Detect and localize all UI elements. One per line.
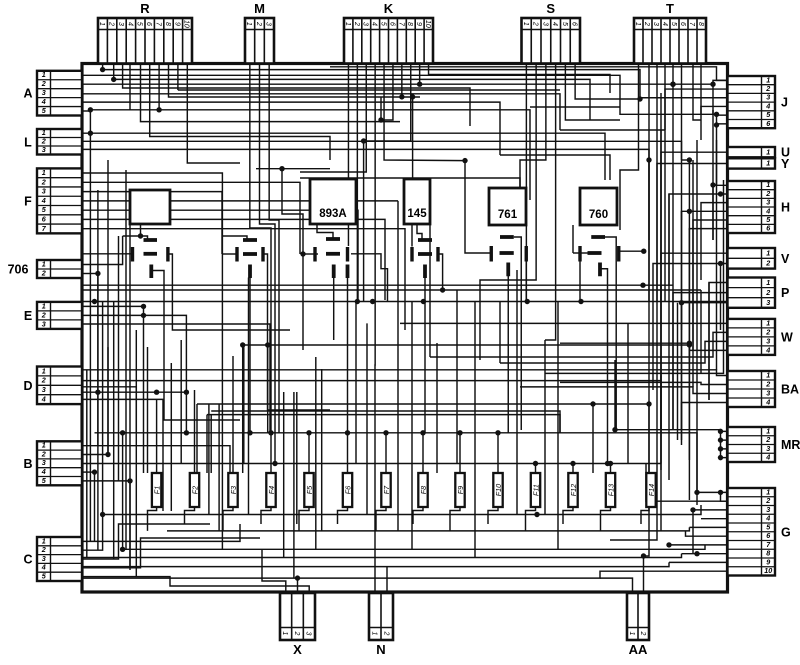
svg-text:F5: F5 (305, 485, 314, 494)
junction (295, 575, 300, 580)
svg-text:3: 3 (42, 385, 46, 394)
wire G3 net (693, 510, 728, 554)
wire K9 drop (419, 64, 421, 85)
wire relay3 right (351, 254, 388, 302)
wire G1 net (697, 491, 728, 493)
wire mid trunk 8 (293, 392, 295, 578)
svg-text:M: M (254, 1, 265, 16)
relay box (unlabeled) (130, 190, 170, 224)
junction (640, 283, 645, 288)
wire P2 net (673, 293, 728, 430)
fuse F6 (343, 473, 353, 507)
wire T3 drop (610, 64, 657, 541)
junction (378, 117, 383, 122)
fuse F14 (646, 473, 656, 507)
junction (710, 82, 715, 87)
wire fuse F9 riser (459, 433, 461, 473)
svg-text:3: 3 (42, 88, 46, 97)
wire relay5 right drop (525, 262, 527, 302)
svg-text:1: 1 (766, 278, 770, 287)
relay box 760 (580, 188, 617, 225)
connector M (3 pins) (245, 1, 274, 64)
wire net 387 (520, 387, 728, 394)
svg-text:760: 760 (589, 209, 608, 221)
wire C5 net (82, 577, 262, 586)
svg-text:F11: F11 (531, 484, 540, 496)
svg-text:F13: F13 (606, 484, 615, 496)
wire MR feed2 (614, 360, 616, 430)
wire MR1 net (721, 430, 728, 432)
wire left trunk c (102, 302, 104, 515)
wire N1 riser (374, 558, 376, 594)
wire J6 trunk (713, 125, 717, 185)
wire K2 drop (356, 64, 358, 301)
svg-text:6: 6 (679, 22, 686, 26)
junction (694, 490, 699, 495)
svg-text:8: 8 (164, 22, 171, 26)
wire S6 drop (575, 64, 640, 100)
connector L (3 pins) (24, 128, 82, 154)
wire mid trunk 6 (248, 278, 250, 515)
wire fuse top bus (95, 433, 698, 493)
junction (666, 542, 671, 547)
wire right trunk 7 (681, 211, 683, 430)
wire left trunk b (97, 190, 99, 550)
wire fuse F11 bottom hook (526, 507, 536, 531)
junction (272, 461, 277, 466)
relay contacts K2 (237, 240, 263, 278)
junction (694, 551, 699, 556)
wire B5 net (82, 480, 130, 482)
wire B2 branch (107, 347, 109, 454)
junction (457, 430, 462, 435)
wire MR2 net (721, 439, 728, 441)
wire fuse F10 riser (497, 433, 499, 473)
wire net 325 (400, 322, 728, 324)
wire R8 drop (169, 64, 421, 98)
junction (92, 469, 97, 474)
junction (612, 427, 617, 432)
wire J5 trunk (716, 114, 718, 125)
connector BA (4 pins) (728, 370, 800, 407)
wire fuse F14 riser (648, 440, 650, 473)
svg-text:1: 1 (42, 70, 46, 79)
junction (138, 233, 143, 238)
svg-text:3: 3 (766, 93, 770, 102)
wire T4 drop (664, 64, 666, 302)
svg-text:V: V (781, 252, 790, 266)
wire net 120 (380, 97, 382, 120)
wire U net (661, 152, 728, 260)
wire R1 bus (103, 70, 640, 99)
wire net 160b (648, 160, 650, 302)
wire C3 net (82, 524, 210, 559)
wire H6 net (689, 229, 727, 360)
wire V2 trunk (720, 264, 722, 331)
connector C (5 pins) (23, 536, 82, 581)
junction (105, 452, 110, 457)
wire relay2 left feed (222, 253, 236, 255)
wire mid trunk 13 (366, 323, 368, 514)
svg-text:8: 8 (697, 22, 704, 26)
wire X3 riser (262, 586, 309, 593)
svg-text:2: 2 (382, 630, 389, 635)
wire right trunk 3 (668, 194, 670, 480)
wire mid trunk 3 (218, 404, 220, 531)
wire mid trunk 2 (210, 415, 212, 473)
svg-text:3: 3 (766, 444, 770, 453)
svg-text:H: H (781, 201, 790, 215)
junction (687, 157, 692, 162)
wire relay6 top feed (605, 237, 616, 430)
wire MR trunk (720, 431, 722, 457)
wire relay6 left feed drop (572, 225, 574, 253)
svg-text:2: 2 (41, 545, 46, 554)
junction (345, 430, 350, 435)
junction (590, 401, 595, 406)
wire relay5 top feed (514, 237, 522, 430)
wire E1 trunk (143, 306, 145, 473)
svg-text:3: 3 (362, 22, 369, 26)
wire T8 drop (700, 64, 702, 115)
svg-text:1: 1 (344, 22, 351, 26)
wire relay6 left bar drop (579, 262, 581, 302)
wire left trunk e (113, 302, 115, 560)
junction (533, 461, 538, 466)
connector G (10 pins) (728, 487, 791, 575)
svg-text:4: 4 (765, 514, 770, 523)
junction (462, 158, 467, 163)
junction (641, 553, 646, 558)
wire J2 net (665, 89, 728, 130)
wire J5 net (717, 114, 728, 116)
wire S1 drop (525, 64, 527, 302)
connector D (4 pins) (23, 366, 82, 404)
wire low bus 5 (82, 562, 669, 566)
wire mid trunk 14 (397, 201, 399, 531)
wire B2 net (82, 454, 108, 456)
junction (88, 131, 93, 136)
wire relay1 coil drop (151, 271, 240, 421)
svg-text:1: 1 (42, 168, 46, 177)
wire D1 net (82, 370, 728, 376)
svg-text:4: 4 (765, 101, 770, 110)
wire S2 drop (480, 64, 536, 361)
wire A3 net (82, 94, 560, 130)
wire R1 drop (102, 64, 104, 70)
wire D4 net (82, 399, 163, 511)
wire fuse F5 riser (308, 433, 310, 473)
junction (578, 299, 583, 304)
connector U (1 pin) (728, 146, 791, 160)
svg-text:F2: F2 (190, 486, 199, 494)
svg-text:1: 1 (766, 159, 770, 168)
wire S3 drop (520, 64, 546, 201)
wire right trunk 2 (660, 130, 662, 470)
svg-text:6: 6 (388, 22, 395, 26)
wire G9 net (669, 561, 728, 563)
svg-text:3: 3 (42, 458, 46, 467)
svg-text:G: G (781, 525, 791, 539)
connector F (7 pins) (24, 168, 82, 233)
wire fuse F12 riser (572, 464, 574, 474)
wire left trunk d (107, 160, 109, 455)
svg-text:4: 4 (41, 196, 46, 205)
fuse F1 (152, 473, 162, 507)
wire relay3 left drop (302, 254, 304, 350)
junction (247, 430, 252, 435)
wire J6 net (717, 123, 728, 125)
relay box 893A (310, 179, 356, 224)
wire right trunk 5 (672, 84, 674, 430)
svg-text:9: 9 (173, 22, 180, 26)
wire P1 net (709, 283, 728, 401)
junction (306, 430, 311, 435)
wire fuse F8 bottom hook (413, 507, 423, 524)
junction (670, 82, 675, 87)
junction (355, 299, 360, 304)
wire fuse F13 bottom hook (601, 507, 611, 531)
svg-text:4: 4 (765, 397, 770, 406)
wire relay4 right (439, 254, 443, 290)
svg-text:1: 1 (766, 75, 770, 84)
wire Y net (657, 164, 728, 302)
svg-text:1: 1 (281, 631, 288, 635)
relay contacts K5 (491, 237, 526, 276)
svg-text:C: C (23, 553, 32, 567)
wire R6 drop (150, 64, 330, 161)
svg-text:2: 2 (108, 21, 115, 26)
junction (495, 430, 500, 435)
junction (100, 67, 105, 72)
wire relay3 top feed (317, 224, 333, 239)
junction (570, 461, 575, 466)
junction (417, 82, 422, 87)
wire low bus 2 (167, 527, 689, 531)
connector S (6 pins) (522, 1, 581, 64)
svg-text:5: 5 (136, 22, 143, 26)
wire fuse F3 bottom hook (223, 507, 233, 531)
svg-text:3: 3 (42, 554, 46, 563)
svg-text:1: 1 (42, 259, 46, 268)
connector A (5 pins) (23, 70, 82, 115)
wire L3 net (82, 149, 649, 240)
svg-text:3: 3 (766, 336, 770, 345)
svg-text:F: F (24, 194, 32, 208)
wire C2 net (82, 515, 103, 551)
svg-text:3: 3 (766, 298, 770, 307)
wire R2 bus (114, 79, 590, 120)
wire MR feed (615, 430, 721, 432)
wire net T6 (682, 159, 690, 161)
wire fuse F13 riser (610, 464, 612, 474)
wire net 404 (197, 403, 649, 405)
connector AA (2 pins) (627, 593, 649, 657)
wire R2 drop (113, 64, 115, 80)
wire mid trunk 11 (321, 369, 323, 531)
wire A1 net (82, 75, 717, 114)
wire 706-2 net (82, 273, 98, 275)
svg-text:6: 6 (571, 22, 578, 26)
svg-text:MR: MR (781, 438, 800, 452)
svg-text:10: 10 (424, 20, 431, 28)
wire net 160 (465, 161, 491, 253)
svg-text:2: 2 (765, 288, 770, 297)
wire left trunk g (125, 170, 127, 549)
relay contacts K3 (315, 239, 348, 278)
wire mid trunk 19 (544, 340, 546, 515)
wire G5 net (689, 526, 727, 528)
wire net 141 (363, 141, 365, 302)
wire relay4 left feed (411, 224, 413, 247)
junction (156, 107, 161, 112)
wire F1 net (82, 173, 222, 236)
svg-text:2: 2 (353, 21, 360, 26)
connector T (8 pins) (634, 1, 706, 64)
wire K3 drop (300, 64, 366, 173)
wire F14 riser top (648, 404, 650, 440)
relay box 761 (489, 188, 526, 225)
wire G7 net (669, 544, 728, 546)
svg-text:4: 4 (41, 97, 46, 106)
svg-text:9: 9 (415, 22, 422, 26)
wire net 357 drop (429, 224, 431, 357)
wire K1 drop (347, 64, 349, 247)
wire A4 net (82, 102, 500, 155)
fuse F2 (190, 473, 200, 507)
wire T5 drop (672, 64, 674, 85)
wire mid trunk 18 (474, 302, 476, 558)
junction (127, 478, 132, 483)
wire right trunk 6 (677, 303, 679, 440)
connector J (6 pins) (728, 75, 789, 128)
wire net 382 (560, 382, 728, 384)
wire fuse F1 bottom hook (148, 507, 157, 531)
connector N (2 pins) (369, 593, 393, 657)
wire S5 drop (565, 64, 620, 121)
svg-text:4: 4 (371, 22, 378, 26)
wire K8 drop (364, 64, 411, 142)
wire R5 drop (141, 64, 401, 122)
wire net 91 (178, 89, 560, 91)
svg-text:3: 3 (541, 22, 548, 26)
wire low bus 6 (82, 571, 693, 578)
wire net 155 (500, 155, 610, 180)
wire F3 riser top (232, 356, 234, 370)
svg-text:2: 2 (532, 21, 539, 26)
wire R10 drop (187, 64, 240, 164)
junction (95, 271, 100, 276)
junction (279, 166, 284, 171)
connector W (4 pins) (728, 318, 794, 355)
junction (141, 304, 146, 309)
svg-text:2: 2 (41, 310, 46, 319)
svg-text:893A: 893A (319, 208, 347, 220)
svg-text:BA: BA (781, 383, 799, 397)
wire fuse F12 bottom hook (563, 507, 573, 524)
fuse F9 (455, 473, 465, 507)
fuse F4 (266, 473, 276, 507)
wire fuse F3 riser (232, 370, 234, 473)
svg-text:S: S (546, 1, 555, 16)
svg-text:AA: AA (629, 642, 648, 657)
wire net 290 (82, 289, 701, 291)
junction (120, 547, 125, 552)
svg-text:4: 4 (41, 467, 46, 476)
svg-text:8: 8 (766, 549, 770, 558)
wire F4 net (82, 200, 398, 202)
junction (718, 437, 723, 442)
svg-text:761: 761 (498, 209, 518, 221)
svg-text:9: 9 (766, 557, 770, 566)
junction (111, 77, 116, 82)
junction (714, 112, 719, 117)
wire relay3 lower2 drop (347, 278, 349, 433)
wire net 373 (545, 326, 724, 373)
wire net 178 (300, 178, 520, 200)
wire net 345 drop a (242, 345, 244, 473)
wire G1-G2 link (721, 492, 728, 501)
wire low bus 3 (123, 545, 705, 549)
svg-text:F8: F8 (419, 486, 428, 494)
junction (120, 430, 125, 435)
wire fuse F7 riser (385, 433, 387, 473)
svg-text:1: 1 (634, 22, 641, 26)
svg-text:4: 4 (41, 394, 46, 403)
fuse F5 (304, 473, 314, 507)
svg-text:6: 6 (145, 22, 152, 26)
svg-text:F4: F4 (267, 486, 276, 494)
wire mid trunk 10 (315, 357, 317, 549)
wire G6 net (686, 531, 728, 536)
svg-text:10: 10 (183, 20, 190, 28)
junction (361, 138, 366, 143)
wire fuse F11 riser (535, 464, 537, 474)
wire mid trunk 20 (557, 302, 559, 550)
junction (714, 122, 719, 127)
wire right trunk 11 (700, 290, 702, 373)
wire net 343 (560, 343, 689, 460)
wire net 107 (530, 106, 620, 108)
wire 706-1 net (82, 236, 123, 265)
junction (370, 299, 375, 304)
svg-text:2: 2 (765, 259, 770, 268)
wire left trunk h (129, 190, 131, 568)
wire fuse F2 riser (194, 390, 196, 473)
junction (718, 446, 723, 451)
wire A5 net b (90, 110, 530, 200)
wire R9 drop (177, 64, 179, 91)
svg-text:X: X (293, 642, 302, 657)
svg-text:2: 2 (41, 268, 46, 277)
wire relay3 coil drop (333, 278, 335, 341)
wire F5 net (82, 210, 358, 301)
svg-text:1: 1 (766, 248, 770, 257)
svg-text:4: 4 (551, 22, 558, 26)
wire G2 net (646, 464, 728, 502)
wire K10 drop (429, 64, 610, 94)
wire S4 drop (545, 64, 556, 341)
junction (670, 82, 675, 87)
junction (300, 251, 305, 256)
svg-text:2: 2 (41, 79, 46, 88)
wire P3 net (682, 303, 728, 440)
junction (421, 299, 426, 304)
wire E2 net (82, 314, 144, 316)
wire net 66.8 (330, 67, 728, 81)
wire left trunk k (147, 347, 149, 473)
wire net 130 (560, 129, 665, 131)
